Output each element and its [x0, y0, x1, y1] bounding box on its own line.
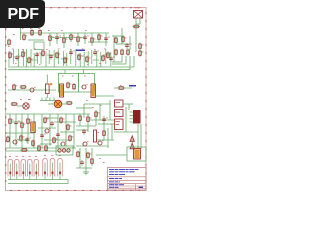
wire: [99, 104, 101, 120]
resistor R18: [42, 50, 47, 57]
wire: [65, 114, 67, 146]
resistor R30: [20, 86, 28, 89]
capacitor C7: [49, 54, 55, 60]
resistor R6: [63, 37, 68, 44]
label AC: [20, 99, 31, 100]
resistor R32: [73, 83, 76, 90]
wire: [73, 114, 75, 148]
relay K1 box: [59, 74, 79, 93]
resistor R38: [27, 118, 32, 125]
module box: [127, 147, 146, 161]
wire: [70, 33, 72, 42]
wire: [77, 33, 79, 46]
resistor R20: [64, 57, 69, 64]
resistor R51: [21, 149, 29, 152]
resistor R53: [45, 145, 48, 152]
wire: [96, 154, 127, 156]
wire: [114, 131, 138, 133]
wire: [112, 35, 124, 37]
transistor Q1: [29, 87, 36, 92]
wire: [49, 114, 51, 146]
fuse F3: [21, 156, 26, 179]
transistor Q6: [97, 140, 104, 145]
wire: [8, 179, 68, 181]
wire: [28, 39, 44, 41]
wire: [40, 143, 52, 145]
node N5: [100, 104, 102, 107]
wire: [84, 33, 86, 44]
capacitor C8: [69, 50, 75, 56]
capacitor C12: [25, 137, 31, 143]
wire: [76, 125, 96, 127]
wire: [136, 23, 140, 25]
wire: [60, 131, 74, 133]
node N0b: [8, 34, 15, 47]
wire: [111, 124, 113, 140]
resistor R29: [13, 84, 18, 91]
resistor R34: [11, 103, 19, 106]
resistor R11: [133, 25, 141, 28]
fuse F5: [34, 156, 39, 179]
wire: [125, 107, 127, 132]
capacitor C18: [80, 160, 84, 166]
wire: [137, 124, 139, 149]
capacitor C11: [14, 120, 20, 126]
wire: [17, 105, 23, 107]
resistor R23: [102, 55, 107, 62]
IC U3: [115, 110, 124, 117]
wire: [46, 32, 109, 34]
capacitor C2: [83, 35, 89, 41]
node N0: [22, 27, 40, 30]
capacitor C5: [15, 55, 21, 61]
wire: [112, 56, 126, 64]
node N4: [92, 106, 94, 109]
resistor R10: [98, 34, 103, 41]
wire: [76, 129, 88, 131]
resistor R49: [95, 111, 100, 118]
wire: [113, 36, 115, 50]
resistor R12: [115, 37, 118, 44]
diode D2: [130, 143, 134, 149]
wire: [76, 167, 92, 169]
wire: [18, 139, 30, 141]
wire: [96, 139, 114, 141]
capacitor C3: [104, 36, 110, 42]
op-amp U1 box: [79, 74, 95, 93]
title block: [108, 168, 147, 191]
resistor R56: [91, 158, 94, 165]
transistor Q5: [60, 141, 67, 146]
wire: [107, 128, 109, 148]
resistor R48: [87, 116, 92, 123]
wire: [113, 50, 115, 62]
wire: [33, 114, 35, 148]
wire: [116, 43, 132, 45]
fuse F1: [8, 156, 13, 179]
wire: [48, 103, 54, 105]
resistor R52: [38, 145, 41, 152]
node N7: [86, 99, 88, 102]
wire: [105, 33, 107, 46]
resistor R13: [122, 36, 127, 43]
wire: [84, 103, 110, 105]
wire: [114, 87, 132, 89]
resistor R55: [87, 152, 92, 159]
connector SV1: [60, 84, 64, 97]
resistor R35: [66, 102, 74, 105]
capacitor C15: [56, 132, 60, 138]
resistor R5: [49, 35, 54, 42]
resistor R3: [39, 29, 42, 36]
resistor R26: [121, 49, 124, 56]
IC U4: [115, 119, 124, 130]
resistor R14: [139, 43, 144, 50]
potentiometer P1: [94, 130, 100, 142]
capacitor C1: [55, 35, 61, 41]
resistor R2: [31, 29, 34, 36]
resistor R7: [70, 34, 75, 41]
fuse F7: [50, 155, 55, 179]
sub-box: [34, 42, 44, 50]
wire: [121, 28, 123, 44]
lamp LP1: [54, 100, 62, 108]
capacitor C17: [82, 129, 88, 135]
wire: [38, 147, 76, 149]
capacitor C9: [93, 50, 99, 56]
capacitor C6: [35, 52, 41, 58]
node N2: [61, 29, 63, 32]
fuse F8: [58, 155, 63, 179]
wire: [6, 150, 70, 152]
resistor R33: [118, 85, 126, 89]
wire: [91, 33, 93, 46]
ground: [83, 172, 89, 175]
connector J1: [134, 7, 143, 18]
wire: [15, 114, 17, 146]
wire: [123, 103, 133, 105]
net label IN: [76, 50, 85, 52]
resistor R16: [22, 51, 27, 58]
wire: [41, 114, 43, 148]
resistor R15: [9, 52, 14, 59]
capacitor C10: [109, 56, 115, 62]
wire: [64, 70, 66, 74]
diode D1: [130, 136, 134, 145]
wire: [8, 56, 134, 67]
wire: [6, 132, 34, 134]
resistor R25: [115, 49, 118, 56]
resistor R47: [79, 115, 82, 122]
relay K1 coil: [46, 75, 50, 99]
wire: [9, 49, 111, 67]
wire: [79, 114, 81, 126]
resistor R41: [32, 140, 35, 147]
svg-text:PDF: PDF: [7, 6, 39, 23]
wire: [140, 124, 142, 149]
capacitor C4: [125, 43, 131, 49]
wire: [103, 116, 105, 140]
wire: [8, 56, 130, 70]
connector SV2b: [91, 84, 96, 98]
node N8: [99, 158, 105, 163]
connector pins: [40, 98, 56, 101]
wire: [85, 148, 87, 172]
resistor R27: [127, 49, 130, 56]
capacitor C16: [102, 117, 108, 123]
node N6: [50, 83, 52, 85]
wire: [8, 183, 68, 185]
resistor R22: [86, 56, 91, 63]
resistor R8: [77, 36, 82, 43]
wire: [98, 33, 100, 42]
wire: [83, 104, 85, 118]
capacitor C13: [50, 121, 56, 127]
node N1: [48, 29, 50, 32]
wire: [95, 110, 97, 126]
capacitor C14: [40, 133, 46, 139]
PDF badge: [0, 0, 45, 28]
wire: [76, 107, 92, 109]
resistor R40: [20, 135, 25, 142]
wire: [49, 33, 51, 46]
resistor R1: [23, 34, 28, 41]
transistor Q7: [82, 141, 89, 146]
wire: [21, 114, 23, 148]
resistor R17: [28, 57, 33, 64]
wire: [56, 121, 76, 123]
wire: [128, 104, 130, 110]
net label OUT: [129, 85, 136, 87]
wire: [9, 114, 11, 148]
AC source V1: [23, 103, 29, 109]
wire: [139, 18, 141, 24]
transistor Q3: [12, 139, 19, 144]
frame border: [5, 7, 146, 191]
resistor R42: [44, 117, 49, 124]
wire: [112, 56, 122, 62]
wire: [83, 70, 85, 74]
wire: [6, 147, 38, 149]
fuse F2: [15, 156, 20, 179]
wire: [8, 89, 56, 91]
wire: [44, 139, 70, 141]
resistor R36: [9, 118, 14, 125]
resistor R4: [8, 39, 11, 46]
wire: [67, 180, 69, 184]
wire: [90, 119, 114, 121]
node N3: [85, 29, 87, 32]
wire: [98, 123, 114, 125]
wire: [96, 95, 115, 97]
resistor R9: [91, 37, 96, 44]
label MOD: [62, 75, 86, 78]
wire: [21, 32, 47, 34]
labels: [12, 49, 106, 65]
resistor R19: [56, 52, 61, 59]
wire: [129, 36, 131, 50]
resistor R21: [78, 54, 83, 61]
resistor R45: [53, 137, 58, 144]
connector SV2: [31, 122, 35, 133]
IC U2: [115, 100, 124, 107]
wire: [79, 148, 81, 168]
fuse F4: [28, 156, 33, 179]
transistor Q4: [44, 128, 51, 133]
resistor R50: [103, 130, 106, 137]
wire: [63, 33, 65, 48]
regulator IC1: [134, 149, 141, 160]
resistor R37: [21, 122, 26, 129]
connector X1: [130, 110, 141, 124]
wire: [50, 37, 84, 39]
wire: [6, 113, 90, 115]
wire: [88, 41, 108, 43]
wire: [20, 28, 22, 40]
resistor R31: [67, 82, 72, 89]
wire: [109, 100, 111, 120]
wire: [57, 114, 59, 148]
wire: [135, 18, 137, 52]
wire: [46, 117, 58, 119]
transistor Q2: [81, 84, 88, 89]
resistor R44: [67, 124, 72, 131]
wire: [87, 114, 89, 132]
wire: [91, 148, 93, 166]
resistor R43: [60, 117, 65, 124]
wire: [62, 103, 66, 105]
wire: [27, 114, 29, 144]
inductor L1 box: [56, 146, 73, 155]
resistor R39: [7, 136, 10, 143]
resistor R24: [107, 52, 112, 59]
fuse F6: [43, 155, 48, 179]
wire: [56, 33, 58, 44]
wire: [76, 145, 108, 147]
resistor R28: [139, 50, 144, 57]
wire: [12, 121, 22, 123]
resistor R46: [69, 135, 74, 142]
resistor R54: [77, 151, 80, 158]
inductor L1: [58, 149, 70, 152]
wire: [38, 127, 56, 129]
